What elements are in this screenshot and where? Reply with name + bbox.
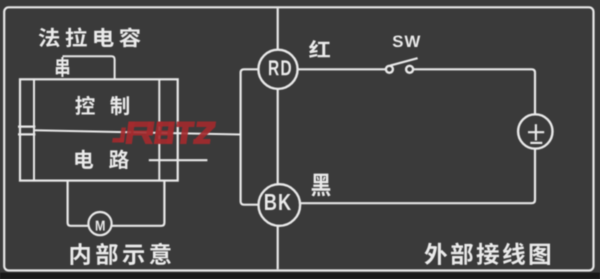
terminal RD: [258, 50, 297, 89]
switch SW contact dot left: [386, 66, 393, 73]
wire: box left drop to motor: [68, 181, 89, 226]
control box inner right wall: [158, 79, 160, 180]
label M: [96, 221, 105, 231]
switch SW lever: [390, 58, 417, 65]
capacitor C1 plate lower (left side): [18, 133, 35, 135]
wire: RD terminal to switch SW: [298, 68, 386, 70]
capacitor series symbol 串: [56, 57, 69, 77]
capacitor C1 plate upper (left side): [18, 125, 35, 127]
switch SW contact dot right: [406, 66, 413, 73]
wire: box middle divider: [34, 130, 178, 133]
wire: battery to BK terminal: [300, 148, 535, 203]
label internal schematic 内部示意: [71, 243, 171, 265]
label control 控制: [75, 96, 129, 115]
battery B1 plus-minus symbol: [528, 124, 544, 143]
label external wiring diagram 外部接线图: [425, 242, 550, 264]
label BK: [265, 194, 291, 210]
wire: RD/BK terminals to mid vertical bus: [241, 69, 259, 204]
wire: capacitor top lead to control box: [63, 56, 115, 79]
watermark logo RETZ: [112, 122, 216, 145]
label farad capacitor 法拉电容: [39, 27, 141, 47]
control box inner left wall: [33, 79, 35, 180]
bottom dark strip: [0, 273, 600, 279]
wire: motor to box right drop: [112, 181, 165, 226]
wire: switch SW to battery: [413, 69, 535, 114]
motor M1: [88, 212, 111, 235]
terminal BK: [259, 184, 301, 226]
wire: stub right of circuit label: [149, 159, 208, 161]
label circuit 电路: [75, 150, 129, 169]
label black wire 黑: [311, 174, 330, 197]
battery B1: [518, 114, 552, 148]
label red wire 红: [309, 40, 330, 58]
wire: box to mid vertical bus: [178, 133, 241, 134]
label RD: [269, 60, 291, 75]
wire: vertical divider net: [277, 8, 279, 269]
label SW: [393, 35, 421, 47]
control circuit box outline: [20, 79, 178, 180]
